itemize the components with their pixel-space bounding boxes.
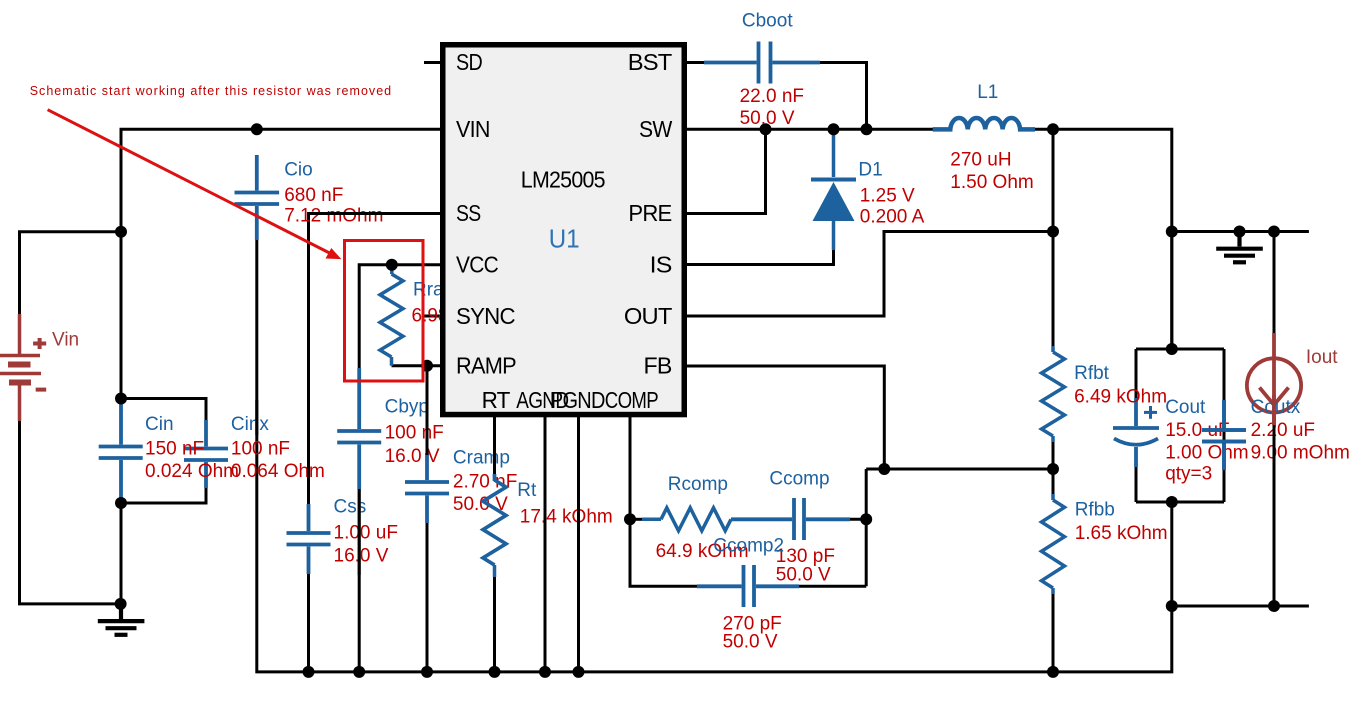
svg-text:OUT: OUT bbox=[624, 303, 672, 329]
svg-text:BST: BST bbox=[628, 49, 672, 75]
wire Cout box left side bbox=[1135, 349, 1138, 400]
node bus Css bbox=[303, 666, 315, 678]
svg-text:Ccomp: Ccomp bbox=[769, 469, 829, 490]
node Cout box bottom bbox=[1166, 496, 1178, 508]
svg-text:qty=3: qty=3 bbox=[1165, 463, 1212, 484]
capacitor Cbyp bbox=[337, 368, 381, 489]
node FB divider bbox=[1047, 463, 1059, 475]
op-amp U1 IC body bbox=[443, 45, 685, 415]
svg-text:IS: IS bbox=[650, 251, 672, 277]
wire Cboot right to SW node bbox=[818, 63, 867, 130]
wire Cramp bottom to bus bbox=[426, 521, 429, 672]
wire Cout box bottom bbox=[1136, 501, 1224, 504]
wire Rt bottom to bus bbox=[493, 576, 496, 672]
wire L1 right to corner bbox=[1020, 129, 1172, 349]
svg-text:VCC: VCC bbox=[456, 251, 498, 277]
svg-text:SW: SW bbox=[639, 116, 672, 142]
wire Iout column top bbox=[1273, 232, 1276, 336]
svg-text:Cin: Cin bbox=[145, 414, 174, 435]
ground main bbox=[98, 604, 145, 635]
node SW D1 bbox=[828, 123, 840, 135]
node ground output bbox=[1234, 226, 1246, 238]
wire battery top to node bbox=[20, 232, 122, 316]
svg-text:Cout: Cout bbox=[1165, 397, 1206, 418]
svg-text:0.200 A: 0.200 A bbox=[860, 207, 925, 228]
capacitor Ccomp bbox=[731, 498, 850, 540]
wire output bottom row right bbox=[1172, 605, 1309, 608]
wire Cio column and bottom bus bbox=[257, 232, 1172, 672]
wire node A down and Ccomp2 row bbox=[630, 519, 699, 586]
diode D1 bbox=[811, 131, 856, 250]
wire Rcomp lead left bbox=[630, 518, 644, 521]
wire Cbyp bottom to bus bbox=[358, 470, 361, 672]
svg-text:270 uH: 270 uH bbox=[950, 150, 1011, 171]
node SW Cboot bbox=[861, 123, 873, 135]
svg-text:17.4 kOhm: 17.4 kOhm bbox=[520, 507, 613, 528]
svg-text:U1: U1 bbox=[549, 223, 580, 253]
wire restroke SS over text bbox=[309, 212, 441, 215]
node ground left bbox=[115, 598, 127, 610]
inductor L1 bbox=[933, 118, 1035, 129]
annotation arrow bbox=[48, 110, 331, 254]
wire Rfbb bottom to bus bbox=[1052, 592, 1055, 672]
svg-text:9.00 mOhm: 9.00 mOhm bbox=[1251, 442, 1350, 463]
node bus Cramp bbox=[421, 666, 433, 678]
svg-text:1.50 Ohm: 1.50 Ohm bbox=[950, 172, 1033, 193]
svg-text:Rfbb: Rfbb bbox=[1075, 499, 1115, 520]
svg-text:LM25005: LM25005 bbox=[521, 167, 605, 193]
wire SS to Css column bbox=[309, 214, 441, 507]
node L1 out bbox=[1047, 123, 1059, 135]
resistor Rra bbox=[380, 265, 403, 366]
svg-text:100 nF: 100 nF bbox=[385, 423, 444, 444]
svg-text:FB: FB bbox=[644, 353, 672, 379]
capacitor Cramp bbox=[405, 453, 449, 523]
svg-text:150 nF: 150 nF bbox=[145, 438, 204, 459]
battery Vin bbox=[0, 314, 46, 421]
node RAMP bbox=[421, 360, 433, 372]
svg-text:1.00 uF: 1.00 uF bbox=[334, 522, 398, 543]
wire battery bottom to ground bbox=[20, 419, 121, 604]
svg-text:0.064 Ohm: 0.064 Ohm bbox=[231, 461, 325, 482]
svg-text:50.0 V: 50.0 V bbox=[740, 108, 795, 129]
wire FB corner down to node B bbox=[865, 469, 868, 586]
wire RT pin to Rt bbox=[493, 415, 496, 481]
svg-text:Cio: Cio bbox=[284, 160, 313, 181]
svg-text:100 nF: 100 nF bbox=[231, 438, 290, 459]
svg-text:VIN: VIN bbox=[456, 116, 490, 142]
svg-text:1.00 Ohm: 1.00 Ohm bbox=[1165, 442, 1248, 463]
resistor Rfbb bbox=[1042, 494, 1065, 594]
node bus Rt bbox=[489, 666, 501, 678]
svg-text:16.0 V: 16.0 V bbox=[385, 446, 440, 467]
svg-text:Rcomp: Rcomp bbox=[668, 474, 728, 495]
wire Ccomp right to node B bbox=[848, 518, 866, 521]
resistor Rt restroke over values bbox=[483, 474, 506, 565]
svg-text:7.12 mOhm: 7.12 mOhm bbox=[284, 206, 383, 227]
capacitor Cio bbox=[235, 155, 280, 240]
wire Css bottom to bus bbox=[307, 572, 310, 672]
svg-text:Vin: Vin bbox=[52, 330, 79, 351]
node bus Rfbb bbox=[1047, 666, 1059, 678]
wire Iout column bottom bbox=[1273, 424, 1276, 606]
current source Iout shaft restroke bbox=[1272, 395, 1276, 425]
node FB jog bbox=[878, 463, 890, 475]
wire restroke Iout column over Coutx values bbox=[1273, 424, 1276, 606]
wire VIN net left column bbox=[121, 129, 440, 398]
wire Cout box right side bbox=[1223, 349, 1226, 402]
node bus AGND bbox=[539, 666, 551, 678]
node bus PGND bbox=[573, 666, 585, 678]
node Cout box top bbox=[1166, 343, 1178, 355]
svg-text:Cbyp: Cbyp bbox=[385, 397, 429, 418]
svg-text:D1: D1 bbox=[858, 160, 882, 181]
capacitor Coutx restroke bbox=[1202, 400, 1246, 470]
wire RAMP to Cramp column bbox=[392, 364, 441, 367]
wire COMP pin down to node A bbox=[629, 415, 632, 519]
capacitor Cin bbox=[99, 399, 143, 504]
current source Iout bbox=[1247, 333, 1301, 413]
node gnd row left bbox=[1166, 600, 1178, 612]
SYNC pin stub bbox=[424, 315, 441, 318]
svg-text:PRE: PRE bbox=[628, 200, 672, 226]
svg-text:Rt: Rt bbox=[517, 480, 537, 501]
svg-text:Cinx: Cinx bbox=[231, 414, 270, 435]
wire Rfbt to Rfbb junction bbox=[1052, 440, 1055, 496]
capacitor Cinx bbox=[184, 420, 228, 488]
node Iout bottom bbox=[1268, 600, 1280, 612]
node OUT join bbox=[1047, 226, 1059, 238]
node Cio top bbox=[251, 123, 263, 135]
capacitor Cboot bbox=[704, 42, 820, 84]
svg-text:Cboot: Cboot bbox=[742, 11, 793, 32]
node VCC bbox=[386, 259, 398, 271]
node Cin bottom bbox=[115, 497, 127, 509]
wire PRE up to SW node bbox=[686, 129, 766, 213]
svg-text:Ccomp2: Ccomp2 bbox=[713, 536, 784, 557]
wire FB jog down bbox=[686, 366, 884, 469]
svg-text:22.0 nF: 22.0 nF bbox=[740, 86, 804, 107]
svg-text:SD: SD bbox=[456, 49, 482, 75]
red highlight box around Rra bbox=[345, 241, 424, 382]
svg-text:2.70 nF: 2.70 nF bbox=[453, 471, 517, 492]
wire output top row right bbox=[1172, 230, 1309, 233]
wire restroke Css column over values bbox=[307, 450, 310, 490]
svg-text:16.0 V: 16.0 V bbox=[334, 546, 389, 567]
wire Cinx branch top bbox=[121, 399, 206, 424]
svg-text:1.25 V: 1.25 V bbox=[860, 185, 915, 206]
resistor Rfbt bbox=[1042, 346, 1065, 442]
node SW PRE bbox=[760, 123, 772, 135]
ground output bbox=[1216, 232, 1263, 263]
svg-text:680 nF: 680 nF bbox=[284, 185, 343, 206]
svg-text:0.024 Ohm: 0.024 Ohm bbox=[145, 461, 239, 482]
svg-text:Cramp: Cramp bbox=[453, 448, 510, 469]
wire FB row to divider bbox=[866, 468, 1053, 471]
resistor Rt bbox=[483, 474, 506, 577]
node Iout top bbox=[1268, 226, 1280, 238]
wire restroke Cramp column over Cbyp values bbox=[426, 393, 429, 455]
wire SW row bbox=[686, 128, 936, 131]
wire IS to D1 bbox=[686, 248, 834, 265]
svg-text:Schematic start working after: Schematic start working after this resis… bbox=[30, 84, 392, 98]
svg-text:Css: Css bbox=[334, 496, 367, 517]
node VIN junction bbox=[115, 226, 127, 238]
svg-text:50.0 V: 50.0 V bbox=[723, 632, 778, 653]
wire Ccomp2 right to node B corner bbox=[797, 585, 866, 588]
wire Cout box column upper bbox=[1170, 232, 1173, 350]
wire restroke Cbyp column over Css values bbox=[358, 489, 361, 575]
svg-text:L1: L1 bbox=[977, 82, 998, 103]
wire AGND pin to bus bbox=[544, 415, 547, 672]
wire PGND pin to bus bbox=[577, 415, 580, 672]
svg-text:1.65 kOhm: 1.65 kOhm bbox=[1075, 523, 1168, 544]
capacitor Cout polarized bbox=[1113, 398, 1159, 467]
svg-text:SYNC: SYNC bbox=[456, 303, 515, 329]
wire restroke PGND over 17.4 kOhm bbox=[577, 500, 580, 535]
node bus Cbyp bbox=[353, 666, 365, 678]
wire VCC to Cbyp column bbox=[359, 265, 440, 404]
capacitor Coutx bbox=[1202, 400, 1246, 470]
svg-text:6.49 kOhm: 6.49 kOhm bbox=[1074, 387, 1167, 408]
svg-text:50.0 V: 50.0 V bbox=[776, 564, 831, 585]
wire BST stub bbox=[686, 61, 706, 64]
capacitor Ccomp2 bbox=[697, 565, 799, 607]
wire Cramp column bbox=[426, 366, 429, 455]
capacitor Css bbox=[287, 504, 331, 574]
node A comp bbox=[624, 513, 636, 525]
node B comp bbox=[860, 513, 872, 525]
svg-text:RT: RT bbox=[482, 387, 511, 413]
wire OUT jog up to output node bbox=[686, 232, 1053, 317]
svg-text:RAMP: RAMP bbox=[456, 353, 516, 379]
svg-text:SS: SS bbox=[456, 200, 481, 226]
SD pin stub bbox=[424, 61, 441, 64]
wire Cin branch bottom bbox=[121, 480, 206, 503]
svg-text:Iout: Iout bbox=[1306, 347, 1338, 368]
wire restroke Cout box right edge over values bbox=[1223, 400, 1226, 470]
svg-text:2.20 uF: 2.20 uF bbox=[1251, 420, 1315, 441]
wire output column x1053 bbox=[1052, 129, 1055, 348]
node Vout top bbox=[1166, 226, 1178, 238]
wire restroke Cio column over Cinx label bbox=[255, 400, 258, 435]
wire Cout box top bbox=[1136, 348, 1224, 351]
wire restroke Rt column over Cramp label bbox=[493, 417, 496, 474]
wire restroke AGND over 17.4 kOhm bbox=[544, 500, 547, 535]
resistor Rcomp bbox=[642, 508, 731, 531]
svg-text:Rfbt: Rfbt bbox=[1074, 363, 1110, 384]
wire Cin node to ground node bbox=[120, 503, 123, 604]
svg-text:PGND: PGND bbox=[550, 387, 605, 413]
wire Cout box column lower bbox=[1170, 502, 1173, 606]
node Cin top bbox=[115, 393, 127, 405]
svg-text:COMP: COMP bbox=[605, 387, 659, 413]
